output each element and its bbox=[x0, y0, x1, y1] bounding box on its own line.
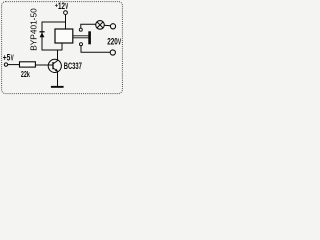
wire lamp to top terminal bbox=[104, 24, 111, 27]
diode BYP401-50 bbox=[40, 22, 45, 50]
relay contact bottom bbox=[80, 43, 83, 46]
relay contact top bbox=[79, 28, 82, 31]
svg-text:22k: 22k bbox=[21, 70, 30, 79]
terminal 220V top bbox=[110, 24, 115, 29]
relay armature bbox=[88, 31, 91, 44]
terminal 220V bottom bbox=[110, 50, 115, 55]
svg-text:V: V bbox=[11, 53, 14, 62]
svg-text:BYP401-50: BYP401-50 bbox=[29, 8, 38, 51]
relay coil K1 bbox=[55, 29, 73, 43]
wire relay coil bottom pin bbox=[61, 43, 63, 50]
svg-text:V: V bbox=[65, 2, 68, 11]
wire +5V terminal to resistor bbox=[8, 64, 20, 66]
terminal +5V bbox=[4, 63, 7, 66]
wire bottom rail diode to coil bbox=[42, 49, 63, 51]
wire resistor to transistor base bbox=[35, 64, 52, 66]
resistor 22k bbox=[20, 62, 36, 67]
wire contact top to lamp bbox=[81, 24, 96, 28]
wire junction to relay coil top bbox=[65, 22, 67, 29]
terminal +12V bbox=[64, 11, 68, 15]
svg-text:220: 220 bbox=[107, 36, 118, 46]
wire emitter to ground bbox=[57, 71, 59, 86]
ground bbox=[51, 86, 64, 88]
wire +12V terminal to junction bbox=[65, 15, 67, 23]
svg-text:12: 12 bbox=[58, 1, 65, 11]
relay linkage bbox=[73, 36, 89, 38]
svg-text:+5: +5 bbox=[3, 52, 11, 62]
wire collector riser bbox=[57, 50, 59, 61]
wire junction to diode cathode bbox=[42, 21, 66, 23]
wire contact bottom to bottom terminal bbox=[81, 46, 110, 53]
lamp bbox=[96, 21, 105, 30]
svg-text:BC337: BC337 bbox=[64, 61, 82, 72]
svg-text:V: V bbox=[118, 37, 122, 46]
transistor BC337 bbox=[48, 59, 61, 72]
